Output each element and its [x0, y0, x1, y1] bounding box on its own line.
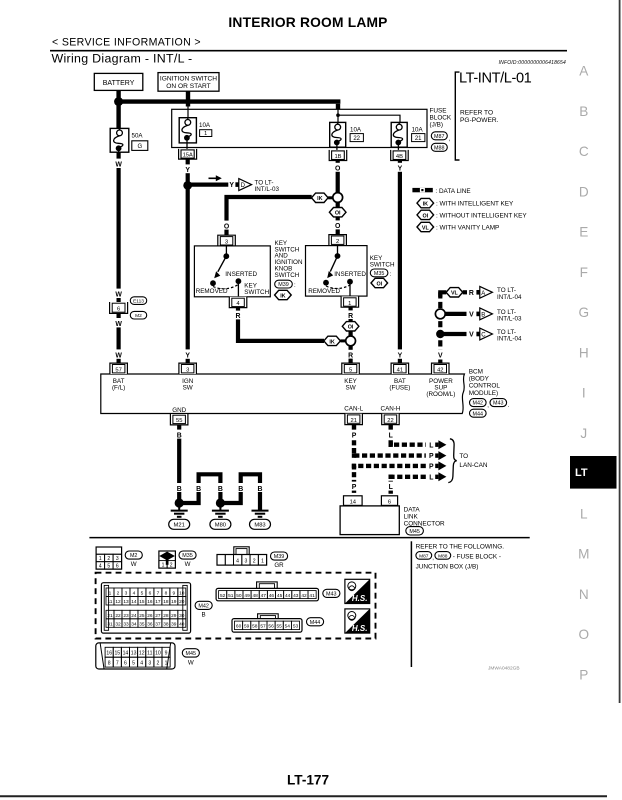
svg-text:58: 58	[252, 624, 258, 630]
svg-text:B: B	[579, 104, 588, 119]
wire data DLC P row3	[354, 466, 426, 496]
svg-text:M35: M35	[374, 271, 385, 277]
wire Y junction to BCM term 3	[182, 185, 193, 363]
svg-text:41: 41	[397, 368, 403, 374]
dashed group box	[96, 573, 376, 639]
wire VL top corner	[440, 292, 446, 297]
svg-text:B: B	[202, 611, 206, 618]
svg-text:W: W	[188, 660, 194, 667]
svg-text:J: J	[580, 426, 587, 441]
svg-text:Y: Y	[185, 352, 190, 359]
wire ignition drop	[186, 91, 190, 106]
off-page connector D to LT-INT/L-03	[235, 179, 279, 194]
page border bottom	[0, 795, 607, 797]
svg-text:M42: M42	[198, 604, 209, 610]
svg-text:L: L	[429, 442, 433, 449]
ignition switch SW1	[158, 73, 219, 92]
terminal 1B	[329, 150, 347, 161]
svg-text:M45: M45	[186, 651, 197, 657]
svg-text:4: 4	[133, 591, 136, 597]
arrow P row3	[429, 461, 446, 470]
wire ignition feed thin	[187, 107, 189, 119]
arrow P row2	[429, 451, 446, 460]
wire O fuse22 down	[332, 161, 343, 193]
wire R OI to ring	[349, 331, 353, 336]
wire Y fuse1 to junction	[182, 159, 193, 185]
svg-text:: DATA LINE: : DATA LINE	[435, 188, 470, 195]
svg-text:52: 52	[220, 593, 226, 599]
svg-text:M87: M87	[434, 134, 445, 140]
svg-text:ON OR START: ON OR START	[166, 83, 210, 90]
svg-text:22: 22	[353, 136, 360, 142]
svg-text:: WITHOUT INTELLIGENT KEY: : WITHOUT INTELLIGENT KEY	[436, 212, 527, 219]
svg-text:22: 22	[115, 613, 121, 619]
refer note	[460, 110, 499, 125]
svg-text:V: V	[469, 332, 474, 339]
svg-text:3: 3	[225, 240, 228, 246]
refer following bracket	[410, 541, 412, 667]
svg-text:B: B	[177, 432, 182, 439]
svg-text:M45: M45	[409, 529, 420, 535]
connector ref M44 label	[470, 409, 487, 417]
BCM box	[101, 374, 465, 414]
svg-text:23: 23	[123, 613, 129, 619]
svg-text:C: C	[481, 333, 486, 339]
svg-text:8: 8	[165, 591, 168, 597]
svg-text:SW: SW	[346, 384, 356, 391]
connector ref M42 label	[470, 399, 490, 409]
page border right	[619, 0, 621, 703]
svg-text:R: R	[236, 313, 241, 320]
wire L to DLC 6	[386, 482, 396, 492]
terminal 4 key switch M39	[229, 297, 247, 308]
svg-text:14: 14	[350, 499, 357, 505]
svg-text:VL: VL	[451, 291, 459, 297]
svg-text:46: 46	[269, 593, 275, 599]
svg-text:H.S.: H.S.	[352, 594, 368, 603]
label TO LAN-CAN	[459, 453, 487, 469]
svg-text:40: 40	[179, 621, 185, 627]
connector view M44	[232, 614, 302, 632]
svg-text:LT-INT/L-01: LT-INT/L-01	[459, 71, 532, 87]
connector ref M39	[275, 280, 296, 289]
svg-text:(BODY: (BODY	[469, 376, 490, 383]
svg-text:2: 2	[253, 559, 256, 565]
wire CAN-H L label	[386, 430, 396, 440]
wire R M39 term4 to IK	[233, 308, 324, 341]
svg-text:3: 3	[186, 368, 189, 374]
svg-text:M87: M87	[419, 553, 429, 559]
svg-text:19: 19	[171, 599, 177, 605]
svg-text:W: W	[131, 561, 137, 568]
svg-text:REMOVED: REMOVED	[308, 288, 340, 295]
svg-text:28: 28	[163, 613, 169, 619]
svg-text:W: W	[115, 292, 122, 299]
wire V to triangle B	[445, 310, 476, 319]
wire CAN-L P label	[349, 430, 359, 440]
svg-text:BCM: BCM	[469, 369, 483, 376]
svg-text:31: 31	[107, 621, 113, 627]
svg-text:54: 54	[285, 624, 291, 630]
svg-text:41: 41	[309, 593, 315, 599]
wire B ground main	[174, 425, 184, 503]
svg-text:INT/L-04: INT/L-04	[497, 336, 522, 343]
svg-text:INT/L-03: INT/L-03	[497, 316, 522, 323]
fuse F1 10A	[179, 118, 212, 151]
connector ref M2	[130, 311, 146, 319]
svg-text:SW: SW	[183, 384, 193, 391]
svg-text:E: E	[579, 225, 588, 240]
svg-text:(FUSE): (FUSE)	[389, 384, 410, 391]
legend data line	[412, 188, 470, 195]
svg-text:36: 36	[147, 621, 153, 627]
svg-text:20: 20	[179, 599, 185, 605]
svg-text:57: 57	[115, 368, 121, 374]
connector view M42	[101, 583, 190, 633]
svg-text:6: 6	[149, 591, 152, 597]
svg-text:O: O	[224, 223, 230, 230]
svg-text:OI: OI	[422, 213, 428, 219]
sheet bracket	[455, 72, 459, 160]
fuse F22 10A	[330, 122, 364, 151]
svg-text:43: 43	[293, 593, 299, 599]
svg-text:P: P	[352, 484, 357, 491]
svg-text:1: 1	[99, 556, 102, 562]
svg-text:INT/L-03: INT/L-03	[255, 186, 280, 193]
wire fuse feed drop	[336, 104, 340, 110]
index tab LT	[570, 456, 617, 489]
connector ref M2 view	[125, 551, 142, 568]
svg-text:33: 33	[123, 621, 129, 627]
off-page connector C to LT-INT/L-04	[476, 328, 522, 343]
svg-text:5: 5	[349, 368, 352, 374]
connector ref M39 view	[271, 552, 288, 569]
connector ref M43 label	[490, 399, 510, 409]
svg-text:2: 2	[156, 661, 159, 667]
svg-text:4B: 4B	[396, 154, 403, 160]
ground M80	[212, 503, 229, 517]
off-page connector B to LT-INT/L-03	[476, 308, 522, 323]
svg-text:11: 11	[108, 599, 113, 605]
svg-text:1: 1	[165, 661, 168, 667]
svg-text:24: 24	[131, 613, 137, 619]
svg-text:B: B	[258, 486, 263, 493]
terminal 15A	[179, 149, 197, 159]
svg-text:M83: M83	[254, 523, 265, 529]
svg-text:6: 6	[116, 564, 119, 570]
connector ref M87 following	[416, 552, 434, 562]
svg-text:M88: M88	[438, 553, 448, 559]
svg-text:2: 2	[107, 556, 110, 562]
svg-text:B: B	[177, 486, 182, 493]
svg-text:1: 1	[204, 131, 207, 137]
svg-text:G: G	[137, 144, 142, 150]
wire R ring to BCM term5	[346, 346, 356, 363]
svg-text:55: 55	[176, 418, 182, 424]
svg-text:56: 56	[268, 624, 274, 630]
svg-text:C: C	[579, 144, 589, 159]
svg-text:IK: IK	[423, 202, 428, 208]
svg-text:Y: Y	[398, 352, 403, 359]
BCM pin labels top	[112, 378, 455, 398]
svg-text:37: 37	[155, 621, 161, 627]
svg-text:10A: 10A	[350, 127, 362, 134]
svg-text:IGNITION SWITCH: IGNITION SWITCH	[160, 75, 217, 82]
svg-text:LAN-CAN: LAN-CAN	[459, 462, 487, 469]
terminal 42 BCM	[432, 363, 450, 374]
wire V branch vertical	[438, 292, 442, 363]
svg-text:3: 3	[244, 559, 247, 565]
label data link connector	[404, 507, 445, 528]
key switch M35 box	[306, 246, 368, 297]
wire V to triangle C	[440, 330, 476, 339]
svg-text:18: 18	[163, 599, 169, 605]
connector ref M42 view	[195, 601, 212, 618]
data link connector box	[340, 506, 399, 535]
fuse F21 10A	[391, 122, 425, 151]
svg-text:M42: M42	[473, 401, 484, 407]
svg-text:V: V	[438, 352, 443, 359]
svg-text:42: 42	[437, 368, 443, 374]
option hexagon IK label M39	[275, 290, 292, 299]
terminal 6 DLC	[381, 496, 397, 506]
svg-text:R: R	[348, 313, 353, 320]
svg-text:TO: TO	[459, 453, 468, 460]
svg-text:INFOID:0000000006418654: INFOID:0000000006418654	[499, 60, 566, 66]
svg-text:M2: M2	[135, 313, 142, 319]
svg-text:9: 9	[165, 651, 168, 657]
svg-text:3: 3	[125, 591, 128, 597]
option hexagon OI on R wire	[342, 322, 359, 331]
svg-text:32: 32	[115, 621, 121, 627]
arrow L row4	[429, 472, 446, 481]
svg-text:Wiring Diagram - INT/L -: Wiring Diagram - INT/L -	[52, 51, 193, 65]
brace TO LAN-CAN	[448, 439, 456, 483]
svg-text:(F/L): (F/L)	[112, 384, 125, 391]
svg-text:L: L	[389, 484, 393, 491]
BCM pin labels bottom	[172, 405, 401, 414]
svg-text:F: F	[580, 265, 588, 280]
wire Y fuse21 to BCM term41	[395, 161, 406, 364]
connector ref M80	[210, 519, 231, 529]
svg-text:JMWA0482GB: JMWA0482GB	[488, 666, 520, 672]
svg-text:N: N	[579, 587, 589, 602]
svg-text:M2: M2	[130, 553, 138, 559]
svg-text:LINK: LINK	[404, 514, 419, 521]
svg-text:H.S.: H.S.	[352, 624, 368, 633]
svg-text:INTERIOR ROOM LAMP: INTERIOR ROOM LAMP	[228, 15, 387, 30]
wire O ring to term2	[332, 202, 343, 234]
node ring V	[435, 309, 445, 319]
svg-text:49: 49	[244, 593, 250, 599]
svg-text:45: 45	[277, 593, 283, 599]
svg-text:10: 10	[179, 591, 185, 597]
svg-text:B: B	[238, 486, 243, 493]
label M35 block	[370, 255, 395, 269]
wire data DLC L row4	[391, 477, 426, 496]
svg-text:M39: M39	[274, 554, 285, 560]
node ring R	[346, 336, 356, 346]
svg-text:15: 15	[139, 599, 145, 605]
svg-text:2: 2	[336, 239, 339, 245]
option hexagon OI label M35	[371, 278, 388, 287]
svg-text:G: G	[579, 305, 590, 320]
svg-text:Y: Y	[229, 182, 234, 189]
svg-text:7: 7	[157, 591, 160, 597]
svg-text:13: 13	[123, 599, 129, 605]
legend OI	[417, 210, 527, 219]
connector ref M35	[370, 269, 391, 278]
svg-text:P: P	[579, 667, 588, 682]
index letters	[578, 64, 589, 683]
svg-text:L: L	[389, 432, 393, 439]
svg-text:25: 25	[139, 613, 145, 619]
svg-text:M43: M43	[493, 401, 504, 407]
svg-text:MODULE): MODULE)	[469, 390, 498, 397]
svg-text:3: 3	[116, 556, 119, 562]
wire fuse feed inside	[337, 109, 339, 124]
svg-text:L: L	[580, 506, 588, 521]
wire W battery to BCM	[113, 152, 124, 363]
connector ref E113	[130, 297, 146, 305]
svg-text:SWITCH: SWITCH	[244, 289, 269, 296]
svg-text:13: 13	[131, 651, 137, 657]
connector ref M35 view	[179, 551, 196, 568]
svg-text:(ROOM/L): (ROOM/L)	[426, 391, 455, 398]
wire fuse feed branch	[338, 115, 400, 124]
terminal 2 key switch M35	[329, 235, 347, 246]
HS mark 1	[345, 579, 370, 603]
connector view M45	[96, 643, 175, 669]
svg-text:D: D	[579, 184, 589, 199]
svg-text:38: 38	[163, 621, 169, 627]
svg-text:M35: M35	[182, 553, 193, 559]
svg-text:21: 21	[415, 136, 422, 142]
connector ref M44 view	[307, 618, 324, 626]
svg-text:5: 5	[107, 564, 110, 570]
node battery junction	[114, 97, 123, 106]
svg-text:OI: OI	[335, 211, 341, 217]
svg-text:IK: IK	[329, 339, 334, 345]
connector view M39	[217, 547, 267, 565]
section separator	[89, 537, 529, 539]
svg-text:W: W	[115, 321, 122, 328]
svg-text:R: R	[348, 352, 353, 359]
svg-text:IK: IK	[280, 293, 285, 299]
svg-text:LT: LT	[575, 467, 588, 479]
svg-text:2: 2	[117, 591, 120, 597]
node ground junction 2	[216, 498, 225, 507]
svg-text:D: D	[241, 183, 246, 189]
svg-text:B: B	[218, 486, 223, 493]
svg-text:(J/B): (J/B)	[430, 122, 444, 129]
wire R to triangle A	[463, 290, 474, 297]
wire P to DLC 14	[349, 482, 359, 492]
HS mark 2	[345, 609, 370, 633]
svg-text:48: 48	[253, 593, 259, 599]
connector view M43	[216, 582, 318, 601]
terminal 5 BCM	[342, 363, 360, 374]
svg-text:< SERVICE INFORMATION >: < SERVICE INFORMATION >	[52, 37, 201, 49]
svg-text:60: 60	[236, 624, 242, 630]
connector ref M45 view	[182, 649, 199, 667]
svg-text:SWITCH: SWITCH	[275, 272, 300, 279]
terminal 21 BCM	[345, 414, 363, 425]
svg-text:REFER TO: REFER TO	[460, 110, 493, 117]
svg-text:O: O	[579, 627, 590, 642]
option hexagon IK on R branch	[324, 336, 346, 345]
terminal 57 BCM	[110, 363, 128, 374]
svg-text:53: 53	[293, 624, 299, 630]
wire O branch to M39 term3	[221, 197, 312, 235]
connector ref M87	[431, 132, 450, 143]
svg-text:10: 10	[155, 651, 161, 657]
svg-text:2: 2	[170, 563, 173, 569]
terminal 41 BCM	[391, 363, 409, 374]
svg-text:W: W	[185, 561, 191, 568]
node Y junction	[183, 181, 192, 190]
connector ref M88 following	[435, 552, 451, 560]
option hexagon IK	[312, 193, 334, 202]
svg-text:34: 34	[131, 621, 137, 627]
legend VL	[417, 222, 499, 231]
connector ref M83	[250, 519, 271, 529]
off-page connector A to LT-INT/L-04	[476, 286, 522, 301]
svg-text:8: 8	[108, 661, 111, 667]
svg-text:50: 50	[236, 593, 242, 599]
svg-text:10A: 10A	[199, 122, 211, 129]
terminal 22 BCM	[382, 414, 400, 425]
option hexagon OI on O wire	[329, 208, 346, 217]
corner squares data lines	[352, 443, 393, 480]
svg-text:CAN-L: CAN-L	[344, 405, 363, 412]
terminal 3 key switch M39	[218, 235, 236, 246]
connector 6 pass-through	[110, 302, 128, 313]
svg-text:51: 51	[228, 593, 234, 599]
ground M21	[171, 503, 188, 517]
svg-text:30: 30	[179, 613, 185, 619]
fuse block box	[172, 109, 427, 147]
svg-text:M88: M88	[434, 145, 445, 151]
svg-text:14: 14	[131, 599, 137, 605]
svg-text:A: A	[579, 64, 589, 79]
label M39 block	[275, 240, 303, 279]
node ground junction 1	[175, 498, 184, 507]
connector ref M43 view	[323, 589, 340, 597]
svg-text:M44: M44	[310, 620, 321, 626]
node dot V	[436, 330, 444, 338]
svg-text:16: 16	[147, 599, 153, 605]
svg-text:O: O	[335, 166, 341, 173]
svg-text:V: V	[469, 312, 474, 319]
svg-text:27: 27	[155, 613, 161, 619]
svg-text:59: 59	[244, 624, 250, 630]
connector ref M45 label	[406, 527, 424, 535]
svg-text:BLOCK: BLOCK	[430, 115, 452, 122]
svg-text:4: 4	[140, 661, 143, 667]
terminal 55 BCM	[170, 414, 188, 425]
svg-text:Y: Y	[185, 167, 190, 174]
ground M83	[252, 511, 269, 517]
svg-text:57: 57	[260, 624, 266, 630]
svg-text:VL: VL	[422, 225, 430, 231]
svg-text:21: 21	[107, 613, 113, 619]
svg-text:JUNCTION BOX (J/B): JUNCTION BOX (J/B)	[416, 563, 479, 570]
svg-text:CAN-H: CAN-H	[381, 405, 401, 412]
svg-text:INSERTED: INSERTED	[334, 271, 366, 278]
svg-text:50A: 50A	[132, 132, 144, 139]
svg-text:44: 44	[285, 593, 291, 599]
